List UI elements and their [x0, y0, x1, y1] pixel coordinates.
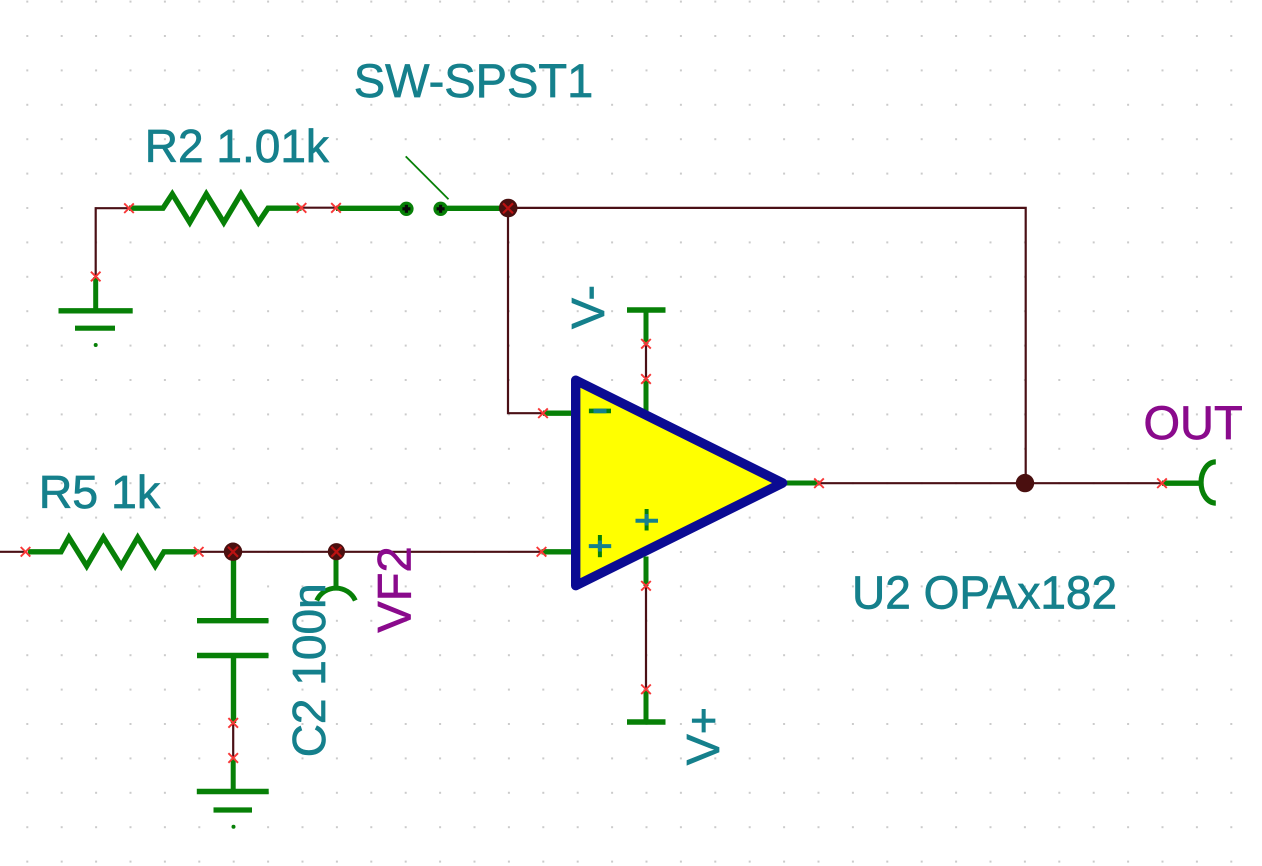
switch SW-SPST1 wires	[336, 206, 401, 211]
supply stub V- to op-amp	[644, 379, 649, 413]
svg-text:R2 1.01k: R2 1.01k	[145, 120, 330, 172]
wire output to OUT connector	[819, 482, 1162, 484]
wire V+ pin	[645, 586, 647, 690]
supply stub V+ below border	[644, 557, 649, 587]
wire feedback top: junction to right corner and down to output	[508, 208, 1026, 483]
junction node VF2	[328, 543, 345, 560]
svg-text:VF2: VF2	[368, 546, 421, 632]
supply terminal V-	[627, 310, 666, 344]
svg-text:V-: V-	[562, 285, 614, 329]
svg-text:C2 100n: C2 100n	[283, 583, 335, 757]
pin connection crosses (red X marks)	[21, 203, 1167, 763]
wire between R2 right lead and switch lead	[302, 207, 337, 209]
svg-text:U2 OPAx182: U2 OPAx182	[852, 567, 1117, 619]
supply terminal V+	[627, 690, 666, 723]
voltage probe VF2	[317, 552, 356, 601]
svg-text:OUT: OUT	[1144, 396, 1243, 449]
output connector OUT	[1162, 462, 1216, 503]
resistor R2	[129, 194, 302, 223]
junction node at switch output	[499, 199, 518, 218]
junction node at output feedback	[1016, 474, 1034, 492]
junction node C2 top	[224, 543, 242, 561]
capacitor C2	[197, 552, 269, 723]
wire V- pin	[645, 344, 647, 379]
wire R5 right to noninverting input	[198, 551, 542, 553]
ground GND1	[59, 277, 133, 347]
op-amp plus input marker	[589, 535, 611, 557]
svg-text:V+: V+	[677, 707, 729, 765]
wire C2 bottom to GND2	[232, 723, 234, 758]
switch pole right	[433, 202, 447, 216]
svg-text:R5 1k: R5 1k	[39, 466, 161, 518]
op-amp minus input marker	[589, 409, 611, 414]
wire net R2-left to ground GND1	[96, 208, 129, 276]
op-amp U2 triangle	[576, 380, 783, 586]
svg-text:SW-SPST1: SW-SPST1	[354, 54, 593, 107]
op-amp input leads	[543, 411, 574, 416]
op-amp output lead	[785, 481, 820, 486]
switch lever	[406, 156, 449, 199]
ground GND2	[197, 759, 269, 829]
op-amp V+ internal marker	[636, 509, 659, 531]
wire junction down to inverting input	[508, 208, 543, 413]
wire left edge to R5	[0, 551, 25, 553]
resistor R5	[28, 538, 199, 567]
switch pole left	[399, 202, 413, 216]
